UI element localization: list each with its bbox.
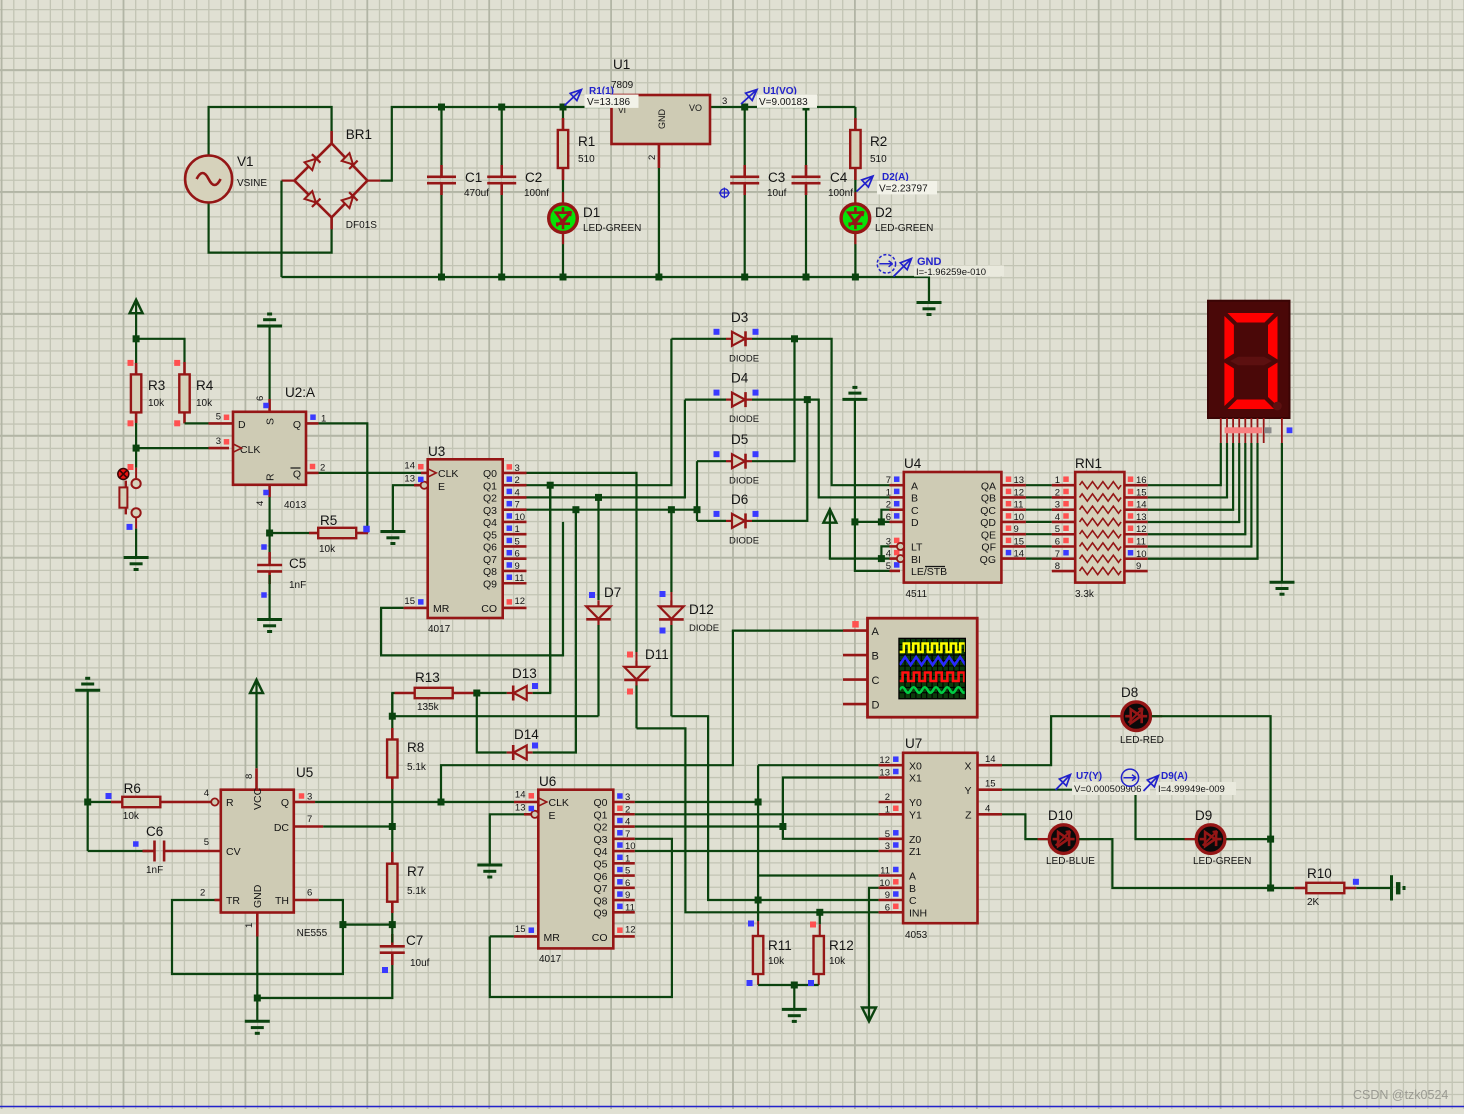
- probe marker: [720, 189, 728, 197]
- wire D5 anode: [697, 460, 726, 462]
- U6 pin Q4: [613, 850, 635, 853]
- junction: [1267, 885, 1274, 892]
- RN1 pin 3: [1052, 508, 1075, 511]
- svg-text:1: 1: [1055, 475, 1060, 486]
- svg-text:11: 11: [880, 866, 890, 877]
- svg-text:2K: 2K: [1307, 897, 1320, 908]
- svg-text:D2: D2: [875, 205, 892, 220]
- svg-text:2: 2: [1055, 487, 1060, 498]
- svg-text:15: 15: [985, 779, 996, 790]
- U6 pin Q6: [613, 874, 635, 877]
- svg-text:C: C: [911, 505, 919, 517]
- wire bottom row to C7: [257, 956, 392, 998]
- RN1 pin 6: [1052, 545, 1075, 548]
- svg-text:D11: D11: [645, 647, 669, 662]
- wire D4 anode: [685, 399, 726, 401]
- svg-text:Y0: Y0: [909, 797, 922, 809]
- U4 pin 13: [1001, 484, 1026, 487]
- svg-text:6: 6: [625, 878, 630, 889]
- svg-text:Q: Q: [281, 797, 289, 809]
- capacitor C4: [792, 176, 821, 179]
- junction: [816, 909, 823, 916]
- svg-text:3: 3: [886, 536, 891, 547]
- svg-text:LED-GREEN: LED-GREEN: [875, 223, 933, 234]
- svg-text:C1: C1: [465, 170, 482, 185]
- resistor R13: [415, 688, 453, 698]
- svg-text:5: 5: [625, 866, 630, 877]
- scope pin C: [843, 678, 868, 681]
- wire R8 R7 column: [391, 693, 393, 740]
- svg-text:7: 7: [886, 475, 891, 486]
- wire C5 to ground: [269, 575, 271, 619]
- RN1 pin 9: [1124, 570, 1147, 573]
- U6 pin 12 CO: [613, 935, 635, 938]
- svg-text:D: D: [872, 700, 880, 712]
- wire bridge right to top rail: [367, 180, 380, 182]
- svg-text:1: 1: [515, 524, 520, 535]
- U4 pin 6: [890, 521, 904, 524]
- svg-text:CSDN @tzk0524: CSDN @tzk0524: [1353, 1088, 1448, 1102]
- wire D3 cathode to A: [752, 339, 890, 485]
- svg-text:LED-GREEN: LED-GREEN: [583, 223, 641, 234]
- svg-text:7: 7: [515, 500, 520, 511]
- svg-text:U3: U3: [428, 444, 445, 459]
- svg-text:B: B: [911, 493, 918, 505]
- svg-text:Q9: Q9: [483, 578, 497, 590]
- svg-text:R8: R8: [407, 740, 424, 755]
- svg-text:B: B: [872, 651, 879, 663]
- svg-text:Q7: Q7: [483, 554, 497, 566]
- svg-text:1: 1: [625, 853, 630, 864]
- svg-text:C2: C2: [525, 170, 542, 185]
- svg-text:5: 5: [885, 829, 890, 840]
- svg-text:10: 10: [1014, 512, 1025, 523]
- svg-text:Q6: Q6: [593, 871, 607, 883]
- junction: [438, 799, 445, 806]
- wire X row to D8: [1002, 716, 1121, 765]
- svg-text:14: 14: [985, 754, 996, 765]
- svg-text:11: 11: [515, 573, 525, 584]
- svg-text:LT: LT: [911, 542, 923, 554]
- wire display common to ground: [1281, 443, 1283, 582]
- svg-text:4: 4: [886, 549, 891, 560]
- wire left rail: [87, 690, 89, 851]
- LED D1: [562, 192, 564, 204]
- wire R1-D1 column: [562, 107, 564, 130]
- U3 pin Q8: [503, 570, 527, 573]
- oscilloscope display: [868, 618, 978, 717]
- svg-text:RN1: RN1: [1075, 456, 1102, 471]
- svg-text:100nf: 100nf: [524, 188, 549, 199]
- svg-text:BI: BI: [911, 554, 921, 566]
- svg-text:7: 7: [307, 814, 312, 825]
- svg-text:DF01S: DF01S: [346, 220, 377, 231]
- U3 pin Q6: [503, 545, 527, 548]
- svg-text:10: 10: [879, 878, 890, 889]
- U7 pin 2: [879, 801, 904, 804]
- svg-text:4511: 4511: [906, 589, 928, 600]
- ground: [380, 530, 405, 533]
- U3 pin Q7: [503, 557, 527, 560]
- wire CLK row: [136, 447, 208, 449]
- svg-text:1: 1: [885, 804, 890, 815]
- current probe D9(A): [1121, 769, 1138, 786]
- svg-text:D9(A): D9(A): [1161, 771, 1188, 782]
- svg-text:3: 3: [722, 96, 727, 107]
- svg-text:R1: R1: [578, 134, 595, 149]
- source V1: [185, 156, 232, 203]
- wire Q1 col upper: [549, 485, 551, 655]
- resistor R11: [753, 936, 763, 974]
- svg-text:4053: 4053: [905, 930, 928, 941]
- svg-text:Q: Q: [293, 469, 301, 481]
- wire D13/D14 cathode tie: [477, 693, 507, 753]
- scope pin D: [843, 703, 868, 706]
- svg-text:13: 13: [404, 474, 415, 485]
- svg-text:C5: C5: [289, 556, 306, 571]
- svg-text:6: 6: [255, 396, 266, 401]
- wire D6 anode: [697, 520, 726, 522]
- wire QA row 14: [1026, 557, 1052, 559]
- svg-text:2: 2: [200, 888, 205, 899]
- junction: [389, 823, 396, 830]
- U3 pin 12 CO: [503, 607, 527, 610]
- diode D5: [732, 454, 745, 468]
- svg-text:DIODE: DIODE: [729, 414, 759, 425]
- ground: [124, 556, 149, 559]
- svg-text:R6: R6: [124, 781, 141, 796]
- svg-text:Q1: Q1: [483, 480, 497, 492]
- wire QA row 15: [1026, 545, 1052, 547]
- junction: [851, 518, 858, 525]
- svg-text:D5: D5: [731, 432, 748, 447]
- svg-text:D12: D12: [689, 602, 714, 617]
- ground: [257, 618, 282, 621]
- wire D14 anode to Q3 column: [533, 700, 576, 753]
- wire D3 anode: [671, 338, 726, 340]
- probe value D2(A): [877, 181, 937, 194]
- U4 pin 11: [1001, 508, 1026, 511]
- svg-text:2: 2: [515, 475, 520, 486]
- svg-text:C4: C4: [830, 170, 848, 185]
- capacitor C2: [487, 176, 516, 179]
- svg-text:Q7: Q7: [593, 883, 607, 895]
- junction: [878, 555, 885, 562]
- wire Q2 row: [527, 400, 685, 498]
- svg-text:D14: D14: [514, 727, 539, 742]
- svg-text:DIODE: DIODE: [729, 353, 759, 364]
- svg-text:U5: U5: [296, 765, 313, 780]
- svg-text:14: 14: [1014, 549, 1025, 560]
- svg-text:8: 8: [244, 774, 255, 779]
- scope trace C red: [900, 673, 970, 682]
- svg-text:10uf: 10uf: [767, 188, 787, 199]
- wire Q2 row: [635, 825, 783, 827]
- svg-text:Z: Z: [965, 810, 972, 822]
- svg-text:Z1: Z1: [909, 846, 921, 858]
- svg-text:4: 4: [255, 501, 266, 506]
- wire U5 DC row: [294, 825, 324, 828]
- svg-text:5.1k: 5.1k: [407, 886, 427, 897]
- ground: [1270, 581, 1295, 584]
- svg-text:9: 9: [1136, 561, 1141, 572]
- ground flipped for U2 S pin: [257, 325, 282, 328]
- power arrow for BI/LT: [823, 509, 836, 523]
- svg-text:R12: R12: [829, 938, 854, 953]
- svg-text:5: 5: [204, 837, 209, 848]
- wire D10 to R10 row: [1079, 839, 1271, 888]
- svg-text:R10: R10: [1307, 866, 1332, 881]
- junction: [473, 690, 480, 697]
- svg-text:12: 12: [879, 755, 890, 766]
- svg-text:QE: QE: [981, 529, 996, 541]
- U6 pin Q1: [613, 813, 635, 816]
- svg-text:13: 13: [879, 768, 890, 779]
- svg-text:CLK: CLK: [438, 468, 458, 480]
- wire D12 cathode chain to C: [670, 625, 672, 716]
- svg-text:10: 10: [625, 841, 636, 852]
- svg-text:Q8: Q8: [483, 566, 497, 578]
- svg-text:6: 6: [885, 902, 890, 913]
- U4 pin 5: [890, 570, 901, 573]
- U4 pin 9: [1001, 533, 1026, 536]
- svg-text:DIODE: DIODE: [729, 476, 759, 487]
- wire feedback row to D7 column: [392, 715, 598, 717]
- wire Q3 row: [527, 509, 698, 511]
- U7 pin 3: [879, 850, 904, 853]
- LED D9: [1185, 838, 1197, 840]
- U7 pin 1: [879, 813, 904, 816]
- capacitor C1: [427, 176, 456, 179]
- junction: [498, 274, 505, 281]
- svg-text:Q6: Q6: [483, 542, 497, 554]
- junction: [694, 506, 701, 513]
- diode D13: [514, 686, 527, 700]
- junction: [254, 995, 261, 1002]
- U6 pin Q3: [613, 837, 635, 840]
- svg-text:B: B: [909, 883, 916, 895]
- wire Q3 col upper: [575, 510, 577, 700]
- svg-text:QD: QD: [980, 517, 996, 529]
- resistor R1: [558, 130, 568, 168]
- svg-text:C3: C3: [768, 170, 785, 185]
- svg-text:D3: D3: [731, 310, 748, 325]
- probe value R1(1): [585, 95, 639, 108]
- svg-text:11: 11: [1014, 500, 1024, 511]
- wire D5 cathode up: [752, 339, 795, 461]
- svg-text:MR: MR: [544, 932, 561, 944]
- svg-text:100nf: 100nf: [828, 188, 853, 199]
- svg-text:10: 10: [515, 512, 526, 523]
- svg-text:3: 3: [515, 463, 520, 474]
- svg-text:6: 6: [886, 512, 891, 523]
- LED D10: [1038, 838, 1050, 840]
- U3 pin Q1: [503, 484, 527, 487]
- capacitor C5: [269, 533, 271, 561]
- ground: [477, 864, 502, 867]
- svg-text:D10: D10: [1048, 808, 1073, 823]
- svg-text:Q0: Q0: [593, 797, 607, 809]
- RN1 pin 8: [1052, 570, 1075, 573]
- wire QA row 11: [1026, 509, 1052, 511]
- svg-text:CV: CV: [226, 846, 241, 858]
- svg-text:TH: TH: [275, 895, 289, 907]
- svg-text:CLK: CLK: [549, 797, 569, 809]
- junction: [741, 104, 748, 111]
- svg-text:8: 8: [1055, 561, 1060, 572]
- resistor R5: [318, 528, 356, 538]
- wire Q0 row to junction: [635, 801, 758, 803]
- svg-text:10k: 10k: [123, 811, 140, 822]
- counter U6 4017: [538, 790, 613, 949]
- svg-text:Q: Q: [293, 419, 301, 431]
- net arrow down: [862, 1008, 876, 1022]
- svg-text:4: 4: [1055, 512, 1060, 523]
- U7 pin 12: [879, 764, 904, 767]
- svg-text:E: E: [549, 810, 556, 822]
- U7 pin 14: [978, 764, 1003, 767]
- svg-text:Q9: Q9: [593, 908, 607, 920]
- resistor network RN1: [1075, 472, 1124, 583]
- svg-text:R2: R2: [870, 134, 887, 149]
- probe D2(A): [857, 176, 874, 192]
- wire Y row to D9: [1002, 790, 1195, 839]
- U4 pin 15: [1001, 545, 1026, 548]
- U3 pin Q0: [503, 472, 527, 475]
- svg-text:D8: D8: [1121, 685, 1138, 700]
- svg-text:13: 13: [1136, 512, 1147, 523]
- wires RN1 to display: [1148, 443, 1221, 485]
- svg-text:15: 15: [404, 596, 415, 607]
- junction: [266, 530, 273, 537]
- svg-text:3: 3: [625, 792, 630, 803]
- svg-text:Q3: Q3: [483, 505, 497, 517]
- svg-text:S: S: [265, 418, 277, 425]
- ground: [245, 1020, 270, 1023]
- svg-text:VCC: VCC: [252, 787, 264, 810]
- U3 pin Q4: [503, 521, 527, 524]
- wire Q0 to D11 column: [527, 473, 637, 652]
- junction: [804, 396, 811, 403]
- U3 pin 15 MR: [404, 607, 428, 610]
- probe value D9(A): [1156, 782, 1236, 795]
- U4 pin 4: [890, 557, 901, 560]
- U4 pin 3: [890, 545, 901, 548]
- U3 pin Q2: [503, 496, 527, 499]
- diode D7: [586, 606, 611, 619]
- svg-text:2: 2: [625, 804, 630, 815]
- U6 pin 14: [514, 801, 538, 804]
- wire U5 pin1 ground: [256, 913, 259, 937]
- resistor R7: [391, 852, 394, 864]
- svg-text:6: 6: [1055, 537, 1060, 548]
- wire C1 column: [440, 107, 442, 176]
- svg-text:4017: 4017: [428, 624, 451, 635]
- svg-text:510: 510: [578, 154, 595, 165]
- junction: [803, 104, 810, 111]
- regulator U1 7809: [612, 95, 711, 144]
- svg-text:1: 1: [244, 923, 255, 928]
- svg-text:5: 5: [886, 561, 891, 572]
- svg-text:Q2: Q2: [483, 493, 497, 505]
- wire C3 column: [744, 107, 746, 176]
- diode D6: [732, 514, 745, 528]
- svg-text:9: 9: [1014, 524, 1019, 535]
- svg-text:D6: D6: [731, 492, 748, 507]
- U6 pin Q8: [613, 899, 635, 902]
- wire C6 row: [88, 850, 150, 852]
- wire R3 column: [135, 339, 137, 363]
- resistor R8: [391, 728, 394, 740]
- RN1 pin 12: [1124, 533, 1147, 536]
- wire D13 anode to Q1 column: [533, 655, 551, 693]
- svg-text:4: 4: [204, 788, 209, 799]
- svg-text:Q3: Q3: [593, 834, 607, 846]
- svg-text:D9: D9: [1195, 808, 1212, 823]
- svg-text:10k: 10k: [829, 956, 846, 967]
- wire QA row 10: [1026, 521, 1052, 523]
- svg-text:1: 1: [321, 414, 326, 425]
- wire D8 to R10 column: [1152, 716, 1271, 888]
- svg-text:A: A: [909, 871, 916, 883]
- junction: [438, 104, 445, 111]
- wire U5 Q row: [294, 801, 315, 804]
- U6 pin Q0: [613, 801, 635, 804]
- svg-text:A: A: [872, 626, 880, 638]
- wire S pin: [269, 326, 271, 399]
- svg-text:10uf: 10uf: [410, 958, 430, 969]
- probe value GND: [914, 266, 1004, 277]
- svg-text:7: 7: [625, 829, 630, 840]
- U4 pin 12: [1001, 496, 1026, 499]
- probe U1(VO): [741, 90, 757, 105]
- svg-text:12: 12: [1136, 524, 1147, 535]
- svg-text:U7: U7: [905, 736, 922, 751]
- svg-text:LED-RED: LED-RED: [1120, 735, 1164, 746]
- svg-text:4017: 4017: [539, 954, 562, 965]
- svg-text:11: 11: [625, 902, 635, 913]
- svg-text:15: 15: [1136, 487, 1147, 498]
- junction: [547, 482, 554, 489]
- wire button to ground: [135, 529, 137, 557]
- resistor R4: [183, 362, 186, 374]
- wire D7 cathode: [597, 625, 599, 716]
- svg-text:U2:A: U2:A: [285, 385, 315, 400]
- junction: [595, 494, 602, 501]
- svg-text:D4: D4: [731, 371, 749, 386]
- U4 pin 10: [1001, 521, 1026, 524]
- U3 pin Q3: [503, 508, 527, 511]
- svg-text:6: 6: [515, 549, 520, 560]
- push button: [135, 448, 137, 468]
- selection line: [0, 1106, 1464, 1108]
- capacitor C7: [391, 934, 394, 946]
- svg-text:Q4: Q4: [593, 846, 607, 858]
- junction: [498, 104, 505, 111]
- wire Q2 down to D7: [597, 497, 599, 600]
- svg-text:DIODE: DIODE: [689, 623, 719, 634]
- svg-text:12: 12: [1014, 487, 1025, 498]
- wire R13 row: [392, 693, 394, 716]
- svg-text:A: A: [911, 480, 918, 492]
- svg-text:BR1: BR1: [346, 127, 372, 142]
- display pins: [1220, 418, 1222, 443]
- capacitor C6: [143, 850, 155, 853]
- svg-text:14: 14: [1136, 500, 1147, 511]
- junction: [84, 799, 91, 806]
- wire X0/C/R11 column: [757, 765, 759, 921]
- junction: [779, 823, 786, 830]
